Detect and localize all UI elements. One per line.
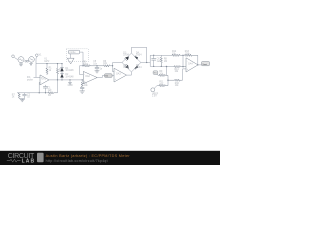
op-amp U1: [40, 75, 49, 85]
source V2: [29, 57, 35, 63]
svg-text:LAB: LAB: [22, 159, 35, 165]
svg-text:1N34: 1N34: [136, 55, 142, 57]
capacitor C1 below op1: [43, 85, 52, 93]
wire probe to row: [80, 52, 83, 66]
svg-text:Austin Bartz (arbartz) : EC/PP: Austin Bartz (arbartz) : EC/PPM/TDS Mete…: [46, 154, 131, 158]
wire input drop: [35, 64, 37, 78]
node flag right: [36, 54, 43, 59]
wire source to bus: [36, 59, 62, 64]
resistor R7: [18, 93, 20, 99]
diode branch wire: [61, 63, 62, 80]
resistor R1: [46, 63, 52, 75]
output bus wire: [49, 79, 83, 80]
svg-text:OA2: OA2: [85, 75, 90, 78]
diode D2: [60, 74, 74, 79]
svg-text:OA4: OA4: [188, 62, 193, 65]
resistor R5: [83, 61, 97, 67]
ground of RC network: [19, 99, 25, 102]
svg-text:1N4148: 1N4148: [65, 77, 74, 79]
wire op1 input: [34, 76, 41, 78]
offset flag box: [153, 71, 159, 76]
probe label box: [69, 50, 80, 54]
input label: [27, 77, 34, 82]
svg-text:1kHz: 1kHz: [44, 61, 50, 63]
footer bar: [0, 151, 220, 165]
svg-text:2.5V: 2.5V: [152, 96, 157, 98]
capacitor C2: [22, 93, 30, 99]
svg-text:1M: 1M: [164, 61, 167, 63]
ground flag on bus: [68, 80, 73, 87]
gain block box: [97, 74, 114, 78]
resistor R11 lower: [159, 80, 168, 87]
resistor R9: [159, 71, 168, 76]
filter tap wire: [166, 66, 167, 75]
coupling symbol: [25, 60, 29, 62]
bridge diode D5: [123, 64, 129, 69]
svg-text:1N34: 1N34: [123, 67, 129, 69]
resistor R6: [97, 61, 113, 67]
resistor R4 snubber: [81, 80, 88, 87]
filter bottom rail: [150, 66, 167, 67]
offset source flag: [151, 86, 159, 98]
logo LAB row: [7, 159, 35, 165]
capacitor C5 to ground: [95, 66, 103, 71]
summing node: [167, 75, 168, 81]
op-amp U2: [83, 71, 97, 83]
logo badge: [37, 153, 44, 162]
filter top rail: [150, 55, 161, 56]
row wire to op2: [80, 65, 84, 74]
bridge top wire: [131, 47, 146, 62]
resistor R2: [56, 63, 62, 80]
diode D1: [60, 67, 74, 72]
source V1: [18, 57, 24, 63]
resistor R12: [172, 51, 185, 56]
feedback junction drop: [182, 55, 183, 68]
dashed probe box: [67, 49, 89, 62]
ground under C4: [80, 91, 85, 93]
output flag Vout: [202, 62, 210, 66]
svg-text:GND: GND: [68, 85, 73, 87]
svg-text:Vout: Vout: [202, 63, 207, 66]
svg-text:probe: probe: [27, 78, 34, 81]
wire row to bridge: [113, 62, 122, 64]
ground under V1: [19, 63, 23, 66]
svg-text:1N34: 1N34: [123, 55, 129, 57]
op-amp U3: [114, 68, 127, 82]
wire U3 out to bridge: [127, 72, 132, 75]
output wire: [197, 64, 201, 65]
capacitor C6: [151, 55, 161, 66]
bridge diode D3: [123, 52, 129, 61]
resistor R13: [185, 51, 198, 65]
capacitor C4 series: [80, 87, 84, 91]
ground under C5: [95, 71, 100, 73]
svg-text:http://circuitlab.com/circuit/: http://circuitlab.com/circuit/7kp4qt: [46, 159, 108, 163]
wire feedback left: [38, 82, 41, 92]
svg-text:1N4148: 1N4148: [65, 70, 74, 72]
ground under V2: [29, 62, 32, 65]
svg-text:OA3: OA3: [116, 73, 121, 76]
resistor R10: [168, 69, 186, 87]
final stage top rail: [161, 54, 172, 56]
svg-text:1N34: 1N34: [136, 67, 142, 69]
mid rail with resistor R14: [166, 66, 186, 74]
label R7: [12, 94, 16, 98]
op-amp U4: [186, 58, 198, 72]
resistor R8: [160, 55, 167, 66]
node flag left: [12, 55, 18, 60]
bridge diamond wires: [122, 53, 141, 72]
resistor R3 feedback: [17, 80, 58, 97]
earth ground in box: [67, 54, 74, 64]
bridge diode D4: [134, 52, 142, 59]
svg-text:probe: probe: [70, 51, 77, 54]
junction label: [93, 61, 98, 66]
wire U3 inv: [112, 63, 114, 72]
bridge diode D6: [134, 65, 142, 70]
bridge right wire: [141, 55, 150, 66]
svg-text:OA1: OA1: [41, 78, 46, 81]
